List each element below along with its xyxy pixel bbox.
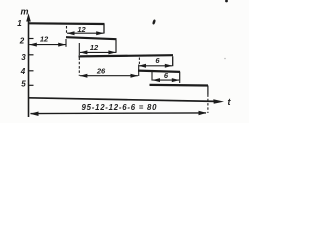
svg-text:3: 3	[21, 53, 26, 62]
svg-text:2: 2	[19, 37, 25, 46]
svg-text:95-12-12-6-6 = 80: 95-12-12-6-6 = 80	[82, 103, 158, 112]
svg-text:m: m	[20, 7, 28, 17]
svg-text:1: 1	[17, 19, 22, 28]
svg-text:26: 26	[96, 67, 106, 76]
svg-text:12: 12	[77, 25, 86, 34]
svg-text:12: 12	[90, 43, 99, 52]
svg-text:12: 12	[40, 34, 49, 43]
svg-text:5: 5	[21, 80, 26, 89]
svg-text:4: 4	[20, 67, 26, 76]
